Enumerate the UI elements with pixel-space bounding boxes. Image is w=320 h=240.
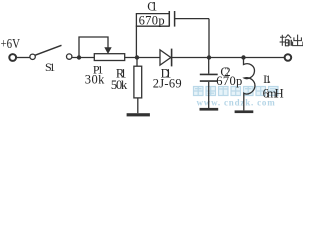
capacitor C2	[200, 58, 218, 109]
svg-text:670p: 670p	[139, 14, 165, 28]
node D junction	[241, 55, 245, 59]
ground (C2)	[200, 108, 219, 111]
svg-text:S1: S1	[45, 60, 55, 74]
ground (R1)	[127, 113, 150, 116]
wire diode to output	[172, 57, 285, 59]
node C junction	[207, 55, 211, 59]
wire terminal to switch	[16, 57, 29, 59]
svg-text:50k: 50k	[111, 78, 128, 92]
wiper arrow	[104, 47, 111, 54]
svg-text:C1: C1	[147, 0, 157, 13]
node B junction	[135, 55, 139, 59]
output terminal	[285, 54, 292, 61]
svg-text:2J-69: 2J-69	[153, 76, 182, 90]
resistor R1	[134, 58, 142, 114]
wire switch to pot	[72, 57, 94, 59]
svg-text:670p: 670p	[216, 74, 242, 88]
watermark	[194, 87, 279, 108]
wire pot to diode	[125, 57, 160, 59]
switch S1	[30, 54, 35, 59]
label 输出 (output)	[280, 35, 303, 46]
potentiometer P1	[94, 54, 124, 61]
ground (L1)	[235, 110, 254, 113]
capacitor C1	[136, 11, 209, 58]
svg-text:6mH: 6mH	[263, 86, 284, 100]
svg-text:30k: 30k	[85, 73, 105, 87]
diode D1	[160, 49, 172, 67]
node A junction	[77, 55, 81, 59]
wire wiper loop	[79, 37, 108, 58]
inductor L1	[244, 58, 255, 111]
svg-text:+6V: +6V	[1, 37, 21, 52]
power terminal +6V	[9, 54, 16, 61]
svg-text:L1: L1	[263, 74, 271, 86]
